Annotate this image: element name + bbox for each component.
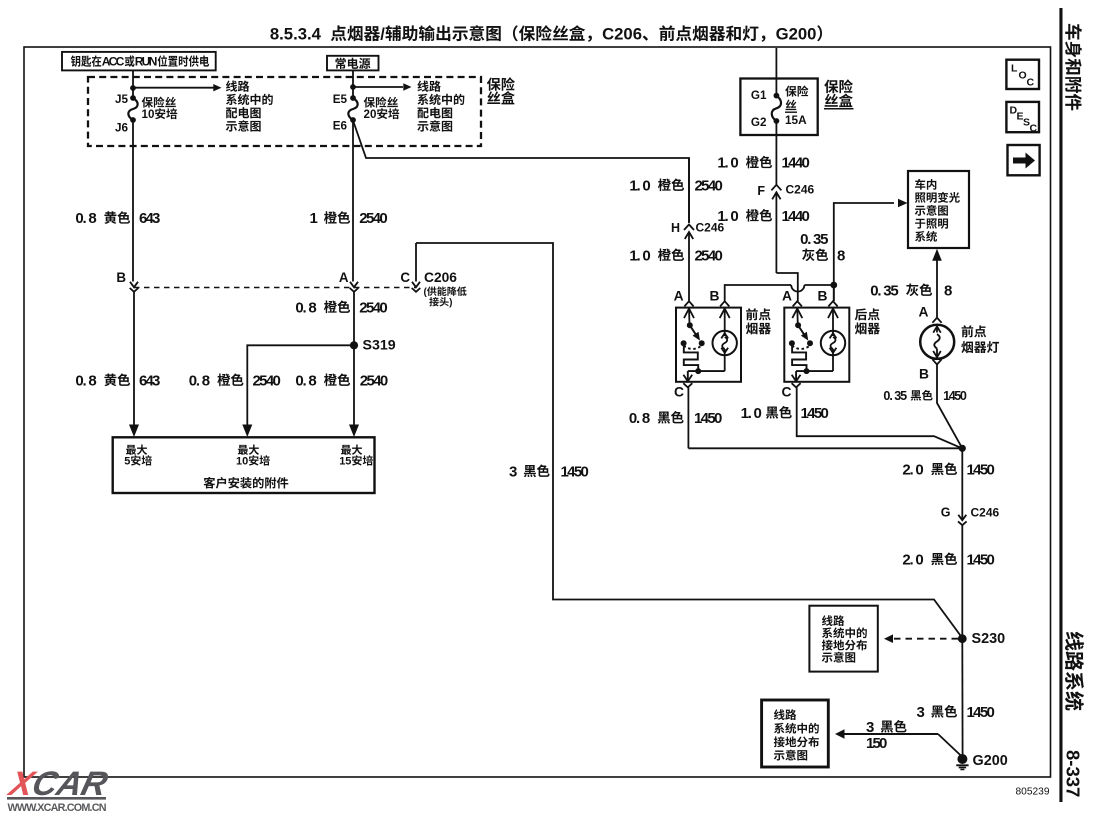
arrowheads into accessory box [129,425,139,438]
svg-text:1450: 1450 [694,410,722,427]
svg-text:C246: C246 [696,220,725,234]
wire diagonal to ground G200 [938,734,962,757]
svg-text:A: A [782,289,792,304]
label rear lighter name [855,308,880,320]
wire rear lighter C down and over to junction [797,387,963,448]
svg-text:E5: E5 [333,93,348,106]
connector C246 pin H [684,225,694,231]
wire from battery box down [352,70,354,98]
svg-text:B: B [919,367,929,382]
next-page arrow box [1008,145,1040,175]
svg-text:643: 643 [139,372,160,389]
svg-text:1. 0: 1. 0 [629,247,650,264]
svg-text:S230: S230 [972,631,1006,647]
customer installed accessories box [113,437,375,493]
svg-text:2. 0: 2. 0 [902,461,923,478]
text power distribution schematic (right) [417,80,440,91]
svg-text:10: 10 [236,456,248,468]
svg-text:643: 643 [139,210,160,227]
arrow to power distribution schematic (right) [353,86,403,88]
vertical margin text wiring-system [1065,632,1084,711]
label front lighter name [746,308,771,320]
wire below H to front lighter pin A [688,232,690,301]
wire S319 branch to middle accessory feed [247,345,354,430]
svg-text:5: 5 [124,456,130,468]
svg-text:1440: 1440 [782,208,810,225]
wire G2 down to connector F [775,121,777,185]
text power distribution schematic (left) [226,80,249,91]
right margin thick rule [1059,8,1062,802]
fuse box label baoxian sihe left [487,77,515,91]
svg-text:C246: C246 [786,182,815,196]
svg-text:E6: E6 [333,119,348,132]
svg-text:0. 8: 0. 8 [189,372,210,389]
wire lamp B down to black junction [937,365,962,449]
front lighter lamp component [932,318,941,323]
svg-text:3: 3 [509,463,517,480]
svg-text:0. 8: 0. 8 [75,210,96,227]
svg-text:J5: J5 [115,93,129,106]
svg-text:G1: G1 [751,89,767,102]
svg-text:8: 8 [837,247,845,264]
ground distribution schematic box lower [762,700,829,767]
svg-text:H: H [671,221,680,235]
svg-text:3: 3 [866,719,874,736]
svg-text:8: 8 [944,282,952,299]
svg-text:150: 150 [866,735,887,752]
ground G200 [957,754,967,764]
wire front lighter C down [687,387,689,448]
svg-text:0. 35: 0. 35 [870,282,898,299]
fuse box G outline [740,79,817,136]
arrow to power distribution schematic (left) [133,87,214,89]
svg-text:1. 0: 1. 0 [741,405,762,422]
svg-text:0. 8: 0. 8 [629,410,650,427]
fuse box dashed outline [88,77,481,146]
svg-text:0. 35: 0. 35 [800,231,828,248]
svg-text:3: 3 [917,704,925,721]
wire E6 down to connector A [352,120,354,282]
svg-text:1450: 1450 [967,704,995,721]
dashed arrow S230 to ground distribution box [891,638,958,640]
svg-text:20: 20 [364,108,377,121]
svg-text:1450: 1450 [943,389,967,403]
connector C246 pin G [958,515,966,520]
svg-text:2540: 2540 [359,299,387,316]
wire front lighter B up and across with hop [725,285,792,301]
junction gray wire [830,282,837,289]
label box battery power [327,56,379,71]
front cigarette lighter component [676,308,741,382]
interior lamps dimming box [908,171,969,248]
connector lamp pin B below [932,359,941,364]
svg-text:2540: 2540 [359,210,387,227]
vertical page number 8-337 [1062,750,1083,797]
svg-text:1440: 1440 [782,155,810,172]
svg-text:10: 10 [142,108,155,121]
wire below G down to S230 [961,525,963,638]
ground distribution schematic box upper [809,606,877,672]
label box key-in-ACC-or-RUN [62,52,216,71]
svg-text:WWW.XCAR.COM.CN: WWW.XCAR.COM.CN [8,802,107,814]
svg-text:G200: G200 [776,25,817,44]
svg-text:(: ( [424,287,428,298]
svg-text:): ) [449,297,452,308]
svg-text:C: C [782,385,792,400]
fuse box label baoxian sihe right [824,79,853,93]
svg-text:2. 0: 2. 0 [902,551,923,568]
connector C246 pin F [771,185,781,191]
svg-text:C: C [674,385,684,400]
DESC box [1006,102,1039,132]
connector C206 dashed body line [134,287,416,289]
wire junction up to interior lamps arrow [834,203,894,285]
svg-text:C: C [1030,122,1038,134]
svg-text:1450: 1450 [801,405,829,422]
svg-text:8-337: 8-337 [1062,750,1083,797]
svg-text:2540: 2540 [360,372,388,389]
wire below F down [775,192,777,273]
svg-text:2540: 2540 [253,372,281,389]
wire junction down to rear lighter B [833,285,835,301]
wire from key box to fuse box [132,70,134,98]
wire E6 branch diagonal to orange feed [353,120,689,223]
svg-text:0. 35: 0. 35 [883,389,907,403]
svg-text:805239: 805239 [1016,787,1050,798]
svg-text:S319: S319 [363,338,396,354]
svg-text:A: A [674,289,684,304]
svg-text:15A: 15A [785,113,807,127]
wire down to connector G [961,448,963,519]
wire from frame top into fuse box G [775,48,777,96]
wire from C206 pin C up and over to ground run [416,243,962,638]
wire S230 down to G200 [961,639,963,757]
svg-text:2540: 2540 [695,247,723,264]
svg-text:C206: C206 [424,270,457,285]
wire ground bus horizontal [688,447,962,449]
splice S230 [958,634,967,643]
svg-text:G200: G200 [973,753,1008,769]
svg-text:0. 8: 0. 8 [75,372,96,389]
svg-text:O: O [1019,69,1027,81]
svg-text:RUN: RUN [135,55,158,69]
arrow wire to lower ground distribution box [835,729,845,739]
svg-text:G: G [941,506,951,520]
rear cigarette lighter component [784,308,849,382]
wire corner to rear lighter pin A [776,273,797,301]
svg-text:A: A [919,305,929,320]
svg-text:15: 15 [339,456,351,468]
svg-text:G2: G2 [751,116,767,129]
svg-text:B: B [710,289,720,304]
wire J6 down to connector B [132,120,134,282]
svg-text:C206: C206 [602,25,642,44]
svg-text:B: B [818,289,828,304]
svg-text:1450: 1450 [967,551,995,568]
svg-text:1450: 1450 [967,461,995,478]
LOC box [1006,60,1039,89]
wire B down to accessory box [133,292,135,431]
svg-text:2540: 2540 [695,177,723,194]
svg-text:1. 0: 1. 0 [717,155,738,172]
svg-text:C246: C246 [971,505,1000,519]
junction black splice top [959,445,966,452]
wire lamp A up into dimming box [936,258,938,317]
svg-text:J6: J6 [115,121,129,134]
wire H branch down [688,158,690,223]
svg-text:F: F [757,184,765,198]
svg-text:C: C [1027,76,1035,88]
svg-text:8.5.3.4: 8.5.3.4 [270,25,322,44]
XCAR watermark logo [4,765,112,802]
svg-text:C: C [400,270,410,285]
vertical margin text body-and-accessories [1065,24,1082,111]
svg-text:A: A [339,270,349,285]
label front lighter lamp name [962,325,987,337]
svg-text:0. 8: 0. 8 [295,299,316,316]
svg-text:ACC: ACC [102,55,125,69]
svg-text:1: 1 [310,210,318,227]
svg-text:1. 0: 1. 0 [629,177,650,194]
svg-text:0. 8: 0. 8 [295,372,316,389]
node E5 feed junction [350,84,356,90]
splice S319 [353,292,355,431]
svg-text:1450: 1450 [561,463,589,480]
svg-text:B: B [116,270,126,285]
svg-text:/: / [380,25,385,44]
svg-text:L: L [1011,62,1018,74]
node J5 feed junction [130,85,136,91]
